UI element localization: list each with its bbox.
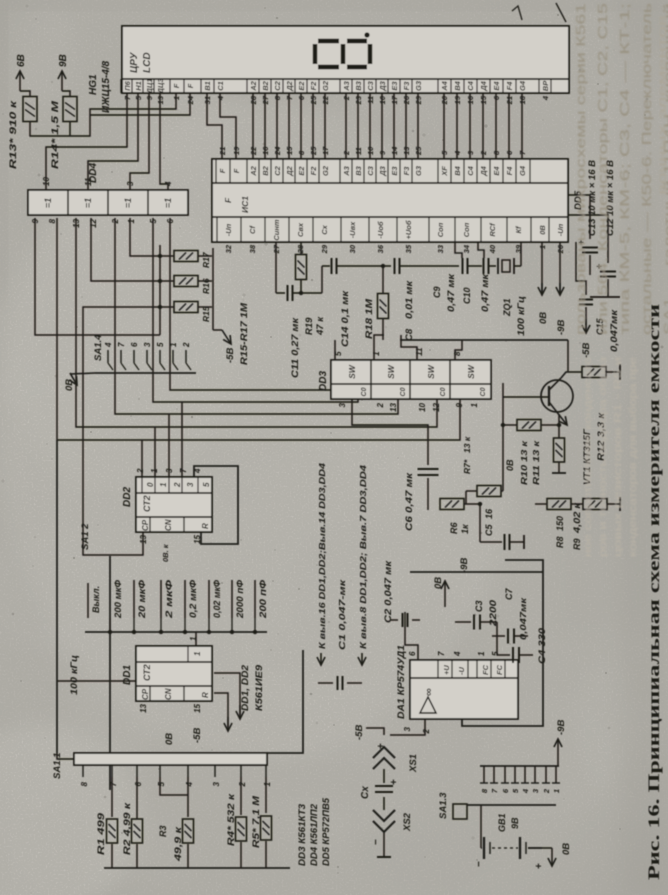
svg-text:-Uвх: -Uвх xyxy=(348,221,357,238)
svg-text:DD4 К561ЛП2: DD4 К561ЛП2 xyxy=(309,804,319,866)
svg-text:15: 15 xyxy=(193,703,202,712)
svg-text:100 кГц: 100 кГц xyxy=(516,296,526,336)
svg-text:SA1 2: SA1 2 xyxy=(80,523,91,550)
svg-text:С0: С0 xyxy=(480,387,487,396)
svg-text:-9В: -9В xyxy=(556,720,567,735)
svg-text:СР: СР xyxy=(141,519,150,531)
svg-text:-5В: -5В xyxy=(225,348,236,363)
svg-text:12: 12 xyxy=(432,402,441,411)
svg-text:GВ1: GВ1 xyxy=(497,813,507,832)
svg-text:13: 13 xyxy=(389,402,398,411)
svg-text:-9В: -9В xyxy=(556,320,567,335)
svg-text:3: 3 xyxy=(186,482,195,487)
svg-text:SW: SW xyxy=(426,364,436,379)
svg-text:R18 1М: R18 1М xyxy=(364,298,375,339)
svg-text:П6: П6 xyxy=(123,80,132,90)
svg-text:R3: R3 xyxy=(158,825,168,837)
svg-text:4: 4 xyxy=(104,342,113,348)
svg-text:ное сопротивление конденсато: ное сопротивление конденсато xyxy=(582,357,594,557)
svg-text:20 мкФ: 20 мкФ xyxy=(137,580,147,619)
svg-text:типа КМ-5, КМ-6; С3, С4 — КТ-1: типа КМ-5, КМ-6; С3, С4 — КТ-1; xyxy=(617,3,632,335)
svg-text:F4: F4 xyxy=(505,81,514,91)
svg-text:0,47 мк: 0,47 мк xyxy=(480,273,490,312)
svg-text:13: 13 xyxy=(139,703,148,712)
svg-text:СТ2: СТ2 xyxy=(142,495,152,512)
svg-text:SA1.4: SA1.4 xyxy=(93,334,104,361)
svg-text:10: 10 xyxy=(418,402,427,411)
svg-text:0В: 0В xyxy=(433,577,444,589)
svg-text:33: 33 xyxy=(436,244,445,253)
svg-text:DD2: DD2 xyxy=(122,487,133,507)
svg-text:С0: С0 xyxy=(400,387,407,396)
svg-text:8: 8 xyxy=(48,218,57,223)
svg-text:38: 38 xyxy=(248,244,257,253)
svg-text:7: 7 xyxy=(437,651,446,656)
svg-text:R1 499: R1 499 xyxy=(96,813,106,855)
svg-text:SW: SW xyxy=(386,364,396,379)
svg-text:Выкл.: Выкл. xyxy=(91,586,101,613)
svg-text:0В: 0В xyxy=(561,843,572,855)
svg-text:47 к: 47 к xyxy=(315,316,326,336)
svg-text:3: 3 xyxy=(338,402,347,407)
svg-text:0,02 мкФ: 0,02 мкФ xyxy=(212,580,222,618)
svg-text:С1 0,047-мк: С1 0,047-мк xyxy=(337,579,347,650)
svg-text:7: 7 xyxy=(109,781,118,786)
svg-text:+Uоб: +Uоб xyxy=(404,220,413,239)
svg-text:DD1: DD1 xyxy=(122,665,133,685)
svg-text:R15: R15 xyxy=(201,306,211,322)
svg-text:1: 1 xyxy=(263,781,272,786)
svg-text:R6: R6 xyxy=(449,522,459,534)
svg-text:ИЖЦ15-4/8: ИЖЦ15-4/8 xyxy=(101,60,112,113)
svg-text:34: 34 xyxy=(462,244,471,253)
svg-text:LCD: LCD xyxy=(142,52,153,73)
svg-text:40: 40 xyxy=(488,244,497,254)
svg-text:DD3 К561КТ3: DD3 К561КТ3 xyxy=(297,804,307,866)
svg-text:0: 0 xyxy=(146,482,155,487)
svg-text:4: 4 xyxy=(453,651,462,657)
svg-text:2 мкФ: 2 мкФ xyxy=(164,580,174,619)
svg-text:2: 2 xyxy=(136,468,145,474)
svg-text:0,047мк: 0,047мк xyxy=(518,597,528,640)
svg-text:В4: В4 xyxy=(453,80,462,90)
svg-text:13 к: 13 к xyxy=(462,436,472,453)
svg-text:В2: В2 xyxy=(261,80,270,90)
svg-text:F: F xyxy=(218,168,227,173)
svg-text:F: F xyxy=(172,83,181,88)
svg-text:Д4: Д4 xyxy=(479,80,488,91)
svg-text:А3: А3 xyxy=(342,165,351,176)
svg-text:R4* 532 к: R4* 532 к xyxy=(226,793,236,846)
svg-text:Соп: Соп xyxy=(436,222,445,237)
svg-text:А2: А2 xyxy=(249,80,258,91)
svg-text:-Uп: -Uп xyxy=(556,223,565,236)
svg-text:3: 3 xyxy=(143,342,152,347)
svg-text:=1: =1 xyxy=(43,198,53,208)
svg-text:К561ИЕ9: К561ИЕ9 xyxy=(254,665,264,711)
svg-text:вочных элементов: вочных элементов xyxy=(655,15,668,195)
svg-text:35: 35 xyxy=(404,244,413,253)
svg-text:ДЦ3: ДЦ3 xyxy=(156,78,165,95)
svg-text:Е2: Е2 xyxy=(297,166,306,176)
svg-text:+U: +U xyxy=(442,665,451,675)
svg-text:С1: С1 xyxy=(216,81,225,91)
svg-text:А4: А4 xyxy=(440,80,449,91)
svg-text:R5* 7,1 М: R5* 7,1 М xyxy=(251,795,261,848)
svg-text:G3: G3 xyxy=(414,80,423,91)
svg-text:1к: 1к xyxy=(460,524,470,534)
svg-text:С9: С9 xyxy=(432,286,442,298)
svg-text:32: 32 xyxy=(224,244,233,253)
svg-text:36: 36 xyxy=(376,244,385,253)
svg-text:остальные — К50-6. Переключате: остальные — К50-6. Переключатель xyxy=(639,3,654,335)
svg-text:В1: В1 xyxy=(203,81,212,91)
svg-text:С14 0,1 мк: С14 0,1 мк xyxy=(340,290,351,347)
svg-text:Д2: Д2 xyxy=(285,165,294,176)
svg-text:0,2 мкФ: 0,2 мкФ xyxy=(188,580,198,618)
svg-text:7: 7 xyxy=(179,468,188,473)
svg-text:-Uп: -Uп xyxy=(224,223,233,236)
svg-text:ВР: ВР xyxy=(541,80,550,91)
svg-text:R: R xyxy=(201,692,210,698)
svg-text:FС: FС xyxy=(481,664,490,675)
svg-text:R19: R19 xyxy=(304,317,315,335)
svg-text:С8: С8 xyxy=(404,328,415,341)
svg-text:−: − xyxy=(371,839,382,845)
svg-text:Свх: Свх xyxy=(296,222,305,237)
svg-text:DD1, DD2: DD1, DD2 xyxy=(240,665,250,711)
svg-text:3: 3 xyxy=(212,781,221,786)
svg-text:С0: С0 xyxy=(361,387,368,396)
svg-text:С2: С2 xyxy=(273,165,282,175)
svg-text:5: 5 xyxy=(156,342,165,347)
svg-text:Е4: Е4 xyxy=(492,166,501,176)
svg-text:F: F xyxy=(232,168,241,173)
svg-text:Сх: Сх xyxy=(320,224,329,234)
svg-text:ХS2: ХS2 xyxy=(402,812,413,832)
svg-text:0В: 0В xyxy=(164,733,175,745)
svg-text:DD5 КР572ПВ5: DD5 КР572ПВ5 xyxy=(321,797,331,866)
svg-text:0,01 мк: 0,01 мк xyxy=(404,280,415,319)
svg-text:=1: =1 xyxy=(163,198,173,208)
svg-text:=1: =1 xyxy=(123,198,133,208)
svg-text:ХF: ХF xyxy=(440,166,449,177)
svg-text:В4: В4 xyxy=(453,165,462,175)
svg-text:G3: G3 xyxy=(414,165,423,176)
svg-text:7: 7 xyxy=(117,342,126,347)
svg-text:ZQ1: ZQ1 xyxy=(502,298,512,317)
svg-text:С2 0,047 мк: С2 0,047 мк xyxy=(383,560,393,623)
svg-text:6: 6 xyxy=(130,342,139,347)
svg-text:F3: F3 xyxy=(402,81,411,91)
svg-text:С4: С4 xyxy=(466,165,475,175)
svg-text:200 мкФ: 200 мкФ xyxy=(113,580,123,619)
svg-text:0В: 0В xyxy=(538,312,549,324)
svg-text:4: 4 xyxy=(185,781,194,787)
svg-text:DA1 КР574УД1: DA1 КР574УД1 xyxy=(396,645,407,719)
svg-text:29: 29 xyxy=(320,244,329,254)
svg-text:200 пФ: 200 пФ xyxy=(258,580,268,619)
svg-text:К выв.16 DD1,DD2;Выв.14 DD3,DD: К выв.16 DD1,DD2;Выв.14 DD3,DD4 xyxy=(317,463,327,649)
svg-text:1: 1 xyxy=(552,789,561,793)
svg-text:1: 1 xyxy=(470,402,479,407)
svg-text:+: + xyxy=(376,743,387,749)
svg-text:-5В: -5В xyxy=(354,725,365,740)
svg-text:пользованы микросхемы серии К5: пользованы микросхемы серии К561 xyxy=(573,3,588,335)
svg-text:100 кГц: 100 кГц xyxy=(69,655,79,695)
svg-text:С4 330: С4 330 xyxy=(537,628,547,664)
svg-text:Е4: Е4 xyxy=(492,81,501,91)
svg-text:С5: С5 xyxy=(484,524,494,536)
svg-text:F4: F4 xyxy=(505,166,514,176)
svg-text:2: 2 xyxy=(238,781,247,787)
svg-text:Е3: Е3 xyxy=(390,81,399,91)
svg-text:6В: 6В xyxy=(16,54,27,67)
svg-text:8: 8 xyxy=(80,781,89,786)
svg-text:R9: R9 xyxy=(572,538,582,550)
svg-text:R13* 910 к: R13* 910 к xyxy=(8,99,19,169)
svg-text:С0: С0 xyxy=(440,387,447,396)
svg-text:0,47 мк: 0,47 мк xyxy=(446,273,456,312)
svg-text:Е2: Е2 xyxy=(297,81,306,91)
svg-text:R10 13 к: R10 13 к xyxy=(519,440,529,485)
svg-text:С11 0,27 мк: С11 0,27 мк xyxy=(290,317,301,378)
svg-text:С6 0,47 мк: С6 0,47 мк xyxy=(404,472,415,531)
svg-text:FС: FС xyxy=(495,664,504,675)
svg-text:3: 3 xyxy=(403,726,412,731)
svg-text:2000 пФ: 2000 пФ xyxy=(235,580,245,619)
svg-text:4: 4 xyxy=(541,95,550,101)
svg-text:2: 2 xyxy=(422,728,431,734)
svg-text:А2: А2 xyxy=(249,165,258,176)
svg-text:или 564. Конденсаторы С1, С2,: или 564. Конденсаторы С1, С2, С15 xyxy=(595,3,610,335)
svg-text:∞: ∞ xyxy=(423,688,435,696)
svg-text:С4: С4 xyxy=(466,80,475,90)
svg-text:R14* 1,5 М: R14* 1,5 М xyxy=(50,99,61,169)
svg-text:F3: F3 xyxy=(402,166,411,176)
svg-text:Е3: Е3 xyxy=(390,166,399,176)
svg-text:2: 2 xyxy=(542,788,551,794)
svg-text:В2: В2 xyxy=(261,165,270,175)
svg-text:ЦРУ: ЦРУ xyxy=(129,51,140,73)
svg-text:В3: В3 xyxy=(354,80,363,90)
svg-text:-9В: -9В xyxy=(459,558,470,573)
svg-text:0В: 0В xyxy=(538,225,547,235)
svg-text:9В: 9В xyxy=(58,54,69,67)
svg-text:Н1: Н1 xyxy=(134,81,143,91)
svg-text:HG1: HG1 xyxy=(88,74,99,95)
svg-text:Соп: Соп xyxy=(462,222,471,237)
svg-text:SW: SW xyxy=(347,364,357,379)
svg-text:5: 5 xyxy=(202,482,211,487)
svg-text:F2: F2 xyxy=(309,166,318,176)
svg-text:СN: СN xyxy=(164,519,173,531)
svg-text:−: − xyxy=(474,861,485,867)
svg-text:R16: R16 xyxy=(201,278,211,294)
svg-text:1: 1 xyxy=(193,651,202,656)
svg-text:R7*: R7* xyxy=(462,459,472,474)
svg-text:С3: С3 xyxy=(474,600,484,612)
svg-text:К выв.8 DD1,DD2; Выв.7 DD3,DD4: К выв.8 DD1,DD2; Выв.7 DD3,DD4 xyxy=(358,465,368,649)
svg-text:А3: А3 xyxy=(342,80,351,91)
svg-text:С3: С3 xyxy=(366,165,375,175)
svg-text:9В: 9В xyxy=(510,817,520,829)
svg-text:2: 2 xyxy=(182,342,191,348)
svg-text:2: 2 xyxy=(376,402,385,408)
svg-text:9: 9 xyxy=(455,402,464,407)
svg-text:30: 30 xyxy=(348,244,357,253)
svg-text:G2: G2 xyxy=(321,165,330,176)
svg-text:Сx: Сx xyxy=(360,786,371,799)
svg-text:СР: СР xyxy=(141,688,150,700)
svg-text:4,02 к: 4,02 к xyxy=(572,502,582,534)
svg-text:+: + xyxy=(534,863,545,869)
svg-text:150: 150 xyxy=(555,516,565,531)
svg-text:В3: В3 xyxy=(354,165,363,175)
svg-text:1: 1 xyxy=(477,651,486,656)
svg-text:=1: =1 xyxy=(83,198,93,208)
svg-text:С3: С3 xyxy=(366,80,375,90)
svg-text:G4: G4 xyxy=(518,80,527,91)
svg-text:С10: С10 xyxy=(462,287,472,304)
svg-text:DD3: DD3 xyxy=(318,371,329,391)
svg-text:СN: СN xyxy=(164,688,173,700)
svg-text:R: R xyxy=(201,523,210,529)
svg-text:Д4: Д4 xyxy=(479,165,488,176)
svg-text:16: 16 xyxy=(484,508,494,519)
svg-text:Рис. 16. Принципиальная схема: Рис. 16. Принципиальная схема измерителя… xyxy=(646,304,663,880)
svg-text:+: + xyxy=(389,779,400,785)
svg-text:R17: R17 xyxy=(201,251,211,268)
svg-text:0В. к: 0В. к xyxy=(161,543,170,562)
svg-text:Синт: Синт xyxy=(272,219,281,241)
svg-text:SA1.3: SA1.3 xyxy=(438,792,449,819)
svg-text:ДЦ1: ДЦ1 xyxy=(145,78,154,94)
svg-text:G2: G2 xyxy=(321,80,330,91)
svg-text:F: F xyxy=(186,83,195,88)
svg-text:ХS1: ХS1 xyxy=(408,754,419,773)
svg-text:СТ2: СТ2 xyxy=(142,664,152,681)
svg-text:4: 4 xyxy=(521,788,530,794)
svg-text:F: F xyxy=(223,197,233,203)
svg-text:0В: 0В xyxy=(64,379,75,391)
svg-text:6: 6 xyxy=(408,651,417,656)
svg-text:F2: F2 xyxy=(309,81,318,91)
svg-text:R11 13 к: R11 13 к xyxy=(531,440,541,485)
svg-text:-5В: -5В xyxy=(192,728,203,743)
svg-text:1: 1 xyxy=(127,218,136,223)
svg-text:5: 5 xyxy=(157,781,166,786)
svg-text:0В: 0В xyxy=(505,459,515,471)
svg-text:ИС1: ИС1 xyxy=(240,196,250,213)
svg-text:-U: -U xyxy=(457,667,466,675)
svg-text:-5В: -5В xyxy=(581,343,592,358)
svg-text:С2: С2 xyxy=(273,80,282,90)
svg-text:Д3: Д3 xyxy=(378,165,387,176)
svg-text:RСf: RСf xyxy=(488,222,497,237)
svg-text:цовых резисторов R1 - R5 и: цовых резисторов R1 - R5 и xyxy=(612,357,624,557)
svg-text:1: 1 xyxy=(159,482,168,487)
svg-text:Д3: Д3 xyxy=(378,80,387,91)
svg-text:SW: SW xyxy=(466,364,476,379)
svg-text:G4: G4 xyxy=(518,165,527,176)
svg-text:ров и точность подбора образ: ров и точность подбора образ xyxy=(597,357,609,557)
svg-text:конденсаторов для выбора пре: конденсаторов для выбора пре xyxy=(627,357,639,557)
svg-text:49,9 к: 49,9 к xyxy=(173,826,183,862)
svg-text:Д2: Д2 xyxy=(285,80,294,91)
svg-text:R8: R8 xyxy=(555,536,565,548)
svg-text:R2 4,99 к: R2 4,99 к xyxy=(122,802,132,855)
svg-text:6: 6 xyxy=(134,781,143,786)
svg-text:-Uоб: -Uоб xyxy=(376,221,385,238)
svg-text:2: 2 xyxy=(173,482,182,488)
svg-text:С7: С7 xyxy=(504,588,514,600)
svg-text:R15-R17 1М: R15-R17 1М xyxy=(239,302,250,365)
